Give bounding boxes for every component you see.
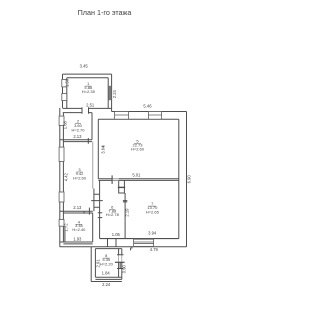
wall F room2 right <box>91 113 93 140</box>
svg-text:5.46: 5.46 <box>143 103 152 108</box>
porch left line <box>90 247 92 282</box>
window W_c room2 left <box>59 116 64 125</box>
stairs rungs <box>91 194 103 207</box>
svg-text:H=2.60: H=2.60 <box>73 176 87 181</box>
door D9 gray segment <box>119 255 122 262</box>
window W_d room4 left <box>59 220 64 227</box>
window W_i room1 right gray <box>108 86 111 100</box>
svg-text:H=2.20: H=2.20 <box>100 261 114 266</box>
svg-text:6.90: 6.90 <box>186 175 191 184</box>
main top wall inner <box>98 118 179 120</box>
window W_e room1 left <box>62 79 67 87</box>
window W_b room3 left lower <box>59 192 64 202</box>
porch bottom line <box>91 281 122 283</box>
window W_h top wall right <box>148 112 161 120</box>
svg-text:H=2.65: H=2.65 <box>146 209 160 214</box>
window W_f bottom wall <box>134 239 154 246</box>
window glazing lines bottom wall <box>134 242 154 243</box>
door D1 jamb ticks <box>82 107 89 114</box>
svg-text:2.13: 2.13 <box>73 205 82 210</box>
stairs rail left <box>93 189 95 212</box>
svg-text:План 1-го этажа: План 1-го этажа <box>78 8 132 17</box>
wall H room6 left <box>99 180 101 238</box>
svg-text:H=2.40: H=2.40 <box>72 227 86 232</box>
svg-text:H=2.60: H=2.60 <box>131 147 145 152</box>
svg-text:4.79: 4.79 <box>150 247 159 252</box>
room 1 right wall <box>108 74 111 111</box>
window W_a room3 left upper <box>59 147 64 161</box>
door ticks wall H <box>98 213 102 218</box>
svg-text:0.90: 0.90 <box>121 264 126 273</box>
main right wall inner <box>178 119 180 238</box>
main right wall outer <box>186 112 188 247</box>
svg-text:1.50: 1.50 <box>64 78 69 87</box>
wall B room2/room3 divider <box>60 140 92 142</box>
room 8 right wall <box>119 249 122 280</box>
room labels <box>71 81 159 266</box>
flue dark tick <box>118 186 125 188</box>
window W_g top wall left <box>115 112 129 120</box>
left outer wall below room1 <box>60 108 64 247</box>
room 8 left wall <box>94 249 96 278</box>
svg-text:1.93: 1.93 <box>73 236 82 241</box>
wall C big-room left <box>97 119 99 179</box>
svg-text:5.01: 5.01 <box>132 173 141 178</box>
wall F2 strip left wall <box>92 142 94 189</box>
wall D big room bottom <box>98 179 179 181</box>
svg-text:1.72: 1.72 <box>64 223 69 232</box>
door D5 gray leaf in wall D <box>112 179 119 181</box>
svg-text:1.68: 1.68 <box>62 120 67 129</box>
flue closet rect below wall D <box>119 180 125 193</box>
room4 right wall <box>92 213 94 242</box>
room 1 top wall <box>63 74 112 78</box>
bottom outer wall <box>60 246 187 248</box>
svg-text:H=2.70: H=2.70 <box>71 128 85 133</box>
wall A room1/room2 divider <box>63 108 112 112</box>
door tick wall B <box>87 138 89 144</box>
dimension texts vertical <box>62 78 191 273</box>
wall E room6/room7 divider <box>124 193 126 239</box>
window glazing lines top wall <box>115 114 162 116</box>
svg-text:3.45: 3.45 <box>80 64 89 69</box>
dim tick wall G <box>83 211 85 214</box>
room 1 left wall <box>63 74 67 108</box>
door D5 jamb tick <box>111 175 113 184</box>
svg-text:3.94: 3.94 <box>148 230 157 235</box>
svg-text:2.13: 2.13 <box>73 134 82 139</box>
room 8 top line <box>95 248 121 250</box>
svg-text:2.24: 2.24 <box>112 89 117 98</box>
svg-text:2.19: 2.19 <box>125 208 130 217</box>
svg-text:H=2.35: H=2.35 <box>82 89 96 94</box>
wall G room3/room4 divider <box>60 211 93 213</box>
bottom wall rooms6-7 inner line <box>100 238 179 240</box>
small mark right of room8 <box>131 248 133 251</box>
door D8 passage ticks <box>108 239 117 247</box>
window glazing room8 <box>119 262 121 268</box>
svg-text:2.24: 2.24 <box>102 282 111 287</box>
door D2 opening room1 left wall <box>62 94 67 101</box>
door D9 ticks <box>117 255 123 269</box>
door tick wall G <box>88 208 90 215</box>
dimension texts horizontal <box>73 64 158 287</box>
room 8 bottom wall <box>95 277 121 279</box>
svg-text:H=2.78: H=2.78 <box>106 212 120 217</box>
svg-text:3.64: 3.64 <box>100 145 105 154</box>
door ticks wall E <box>123 201 127 202</box>
dim tick 3.64 <box>102 145 105 147</box>
room4 left wall inner line <box>64 226 66 242</box>
window divider tick room8 <box>115 261 125 263</box>
windows <box>59 79 161 246</box>
svg-text:1.84: 1.84 <box>102 271 111 276</box>
room4 bottom wall <box>60 242 93 244</box>
svg-text:4.42: 4.42 <box>63 172 68 181</box>
svg-text:1.05: 1.05 <box>112 232 121 237</box>
main top wall outer <box>112 111 187 113</box>
svg-text:2.51: 2.51 <box>86 103 95 108</box>
